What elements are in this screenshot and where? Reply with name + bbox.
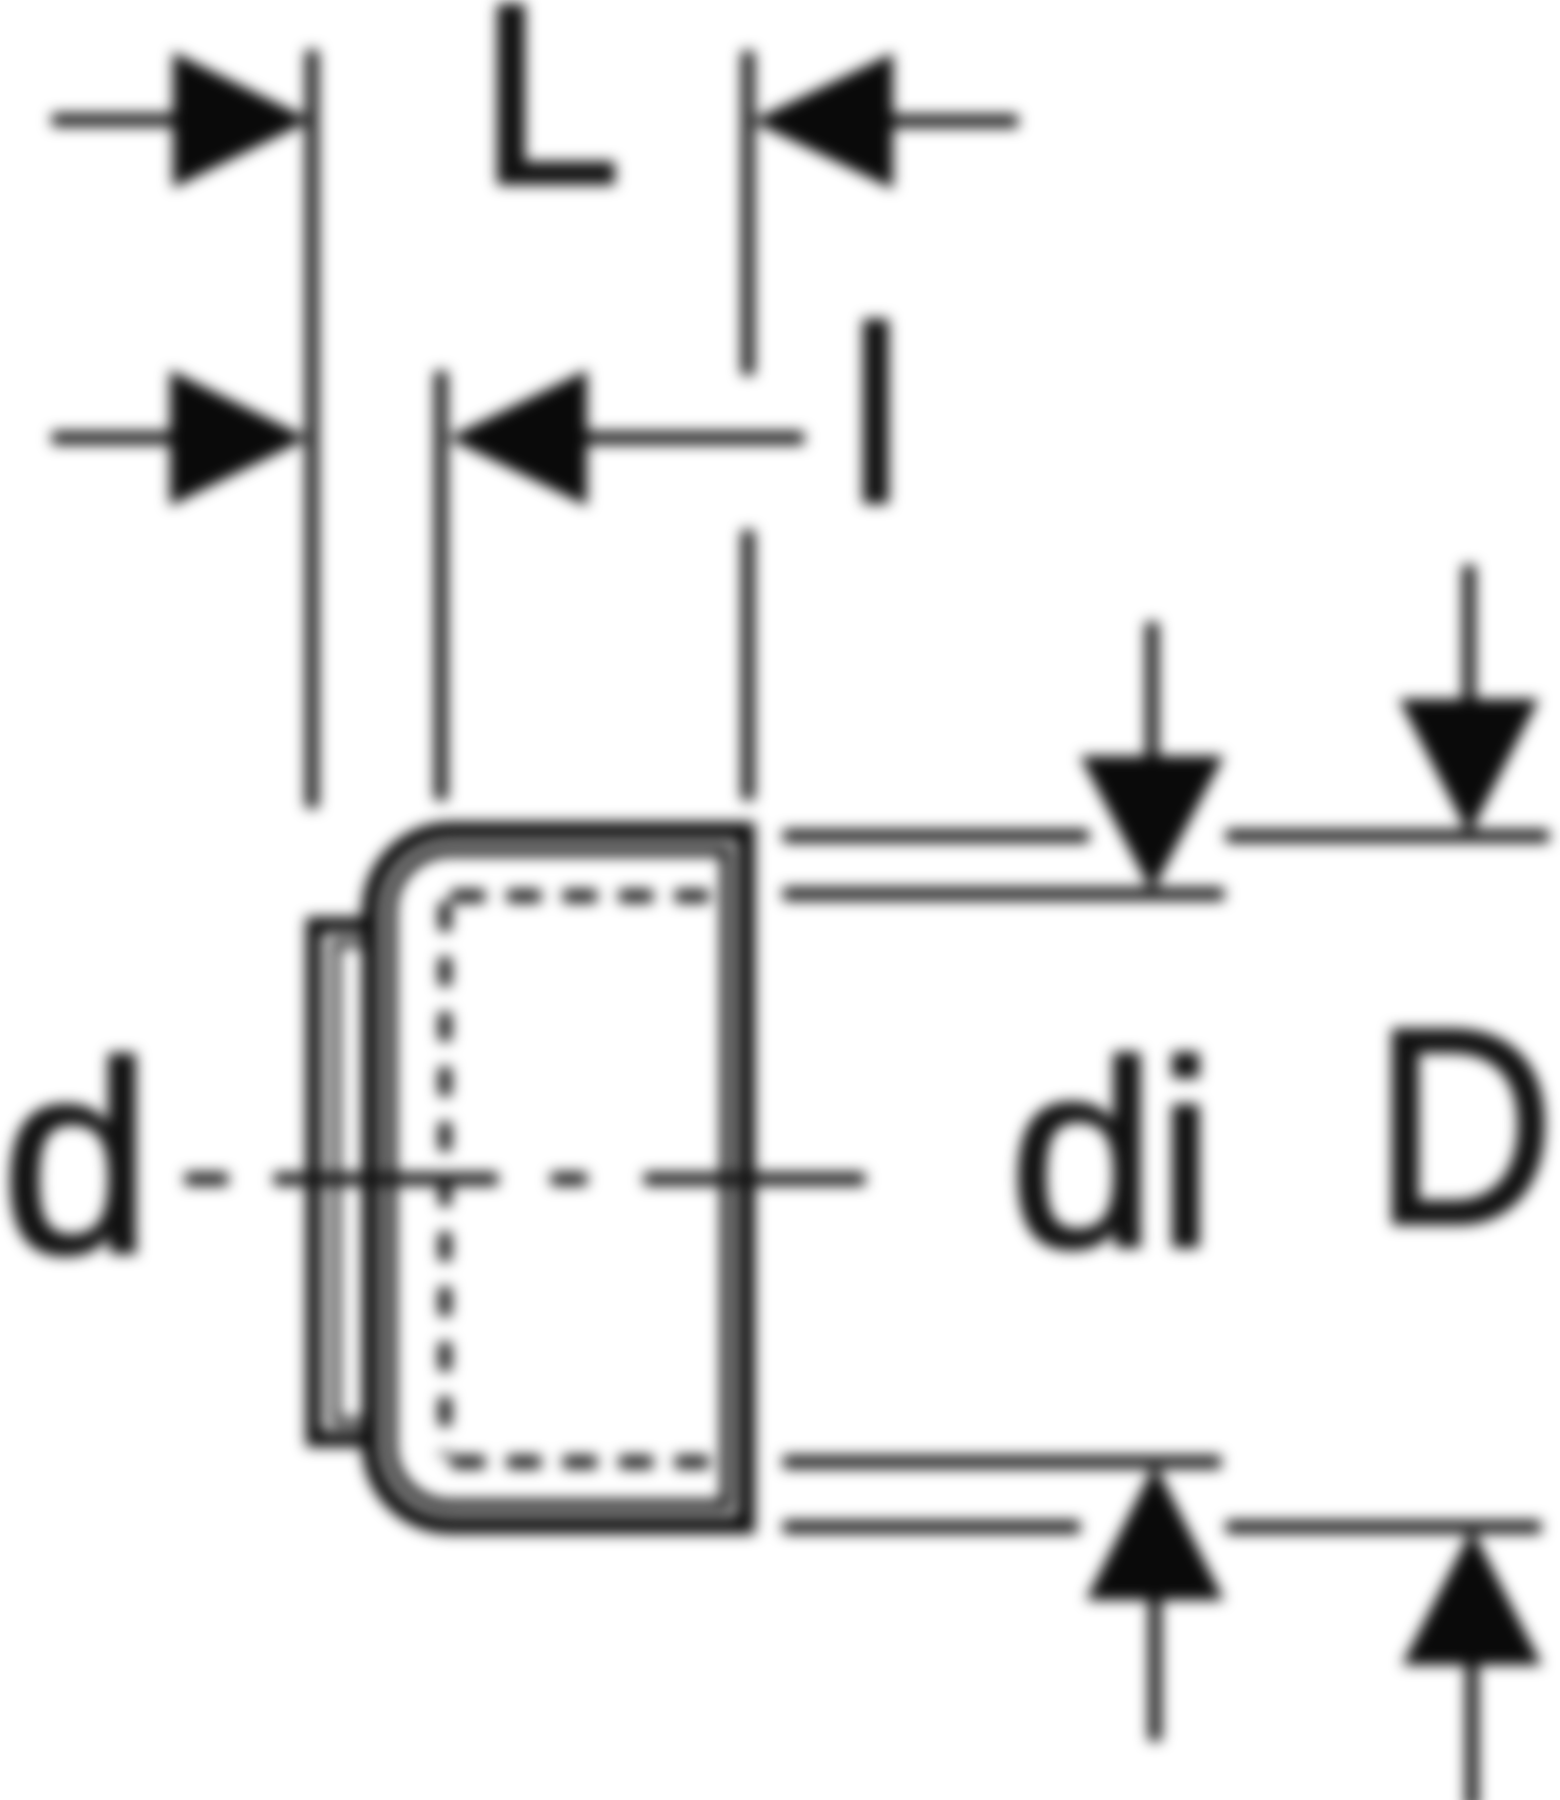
cap outer contour [371, 831, 746, 1525]
extension line at x=441 (insertion mark) [435, 371, 448, 800]
dimension L right shaft [893, 115, 1018, 128]
cap inner contour [391, 851, 726, 1505]
arrow di bottom head [1086, 1464, 1224, 1600]
extension line at x=312 (spigot end) [306, 50, 319, 808]
arrow D bottom head [1402, 1529, 1542, 1665]
pipe spigot outer rectangle [314, 925, 380, 1439]
dimension l right shaft [587, 432, 804, 445]
extension line di top (y=894) [783, 888, 1224, 901]
svg-text:l: l [848, 276, 904, 555]
arrow di top shaft [1146, 622, 1159, 758]
extension line at x=748 lower segment [742, 530, 755, 800]
arrow D top shaft [1463, 565, 1476, 700]
centerline (dash-dot axis) [185, 1173, 865, 1186]
dashed insertion depth rectangle [439, 902, 452, 1456]
dimension l left shaft [52, 432, 172, 445]
extension line D top (y=836) [783, 830, 1549, 843]
extension line D bottom (y=1527) [783, 1521, 1541, 1534]
dimension l right arrowhead [448, 370, 587, 506]
dimension L right arrowhead [752, 53, 893, 189]
arrow D bottom shaft [1466, 1665, 1479, 1800]
dimension L left arrowhead [173, 52, 311, 188]
svg-text:L: L [478, 0, 622, 238]
dimension L left shaft [52, 114, 176, 127]
pipe spigot inner rectangle [336, 943, 380, 1422]
extension line at x=748 upper segment [742, 51, 755, 375]
dimension l left arrowhead [170, 370, 308, 506]
arrow D top head [1399, 699, 1539, 835]
svg-text:di: di [1009, 1007, 1215, 1303]
arrow di top head [1080, 756, 1224, 892]
arrow di bottom shaft [1149, 1600, 1162, 1741]
svg-text:D: D [1373, 971, 1555, 1283]
svg-text:d: d [1, 1006, 152, 1310]
extension line di bottom (y=1462) [783, 1456, 1221, 1469]
